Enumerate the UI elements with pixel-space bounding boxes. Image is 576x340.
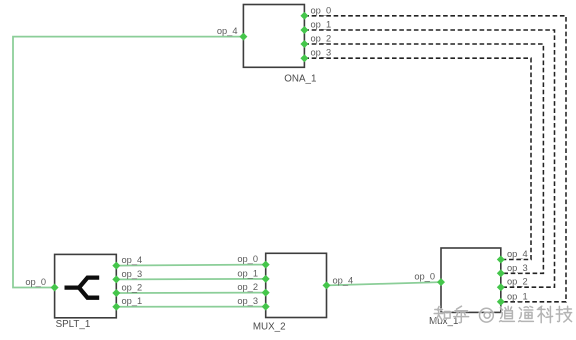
svg-text:op_2: op_2	[237, 282, 258, 292]
svg-text:op_2: op_2	[507, 277, 528, 287]
svg-text:SPLT_1: SPLT_1	[56, 319, 91, 330]
svg-text:op_4: op_4	[333, 275, 354, 285]
svg-text:op_3: op_3	[122, 269, 143, 279]
svg-text:op_2: op_2	[122, 282, 143, 292]
svg-text:op_0: op_0	[237, 254, 258, 264]
svg-text:op_4: op_4	[507, 249, 528, 259]
svg-text:op_1: op_1	[122, 296, 143, 306]
svg-text:op_2: op_2	[311, 34, 332, 44]
svg-text:op_1: op_1	[311, 20, 332, 30]
svg-text:op_3: op_3	[311, 48, 332, 58]
svg-text:op_0: op_0	[414, 272, 435, 282]
svg-text:op_3: op_3	[237, 296, 258, 306]
svg-text:op_0: op_0	[311, 5, 332, 15]
svg-text:op_4: op_4	[122, 255, 143, 265]
svg-text:op_3: op_3	[507, 263, 528, 273]
svg-text:ONA_1: ONA_1	[284, 73, 316, 84]
svg-text:MUX_2: MUX_2	[253, 321, 286, 332]
svg-text:op_0: op_0	[25, 277, 46, 287]
svg-text:op_4: op_4	[217, 26, 238, 36]
svg-text:op_1: op_1	[507, 291, 528, 301]
svg-text:op_1: op_1	[237, 268, 258, 278]
